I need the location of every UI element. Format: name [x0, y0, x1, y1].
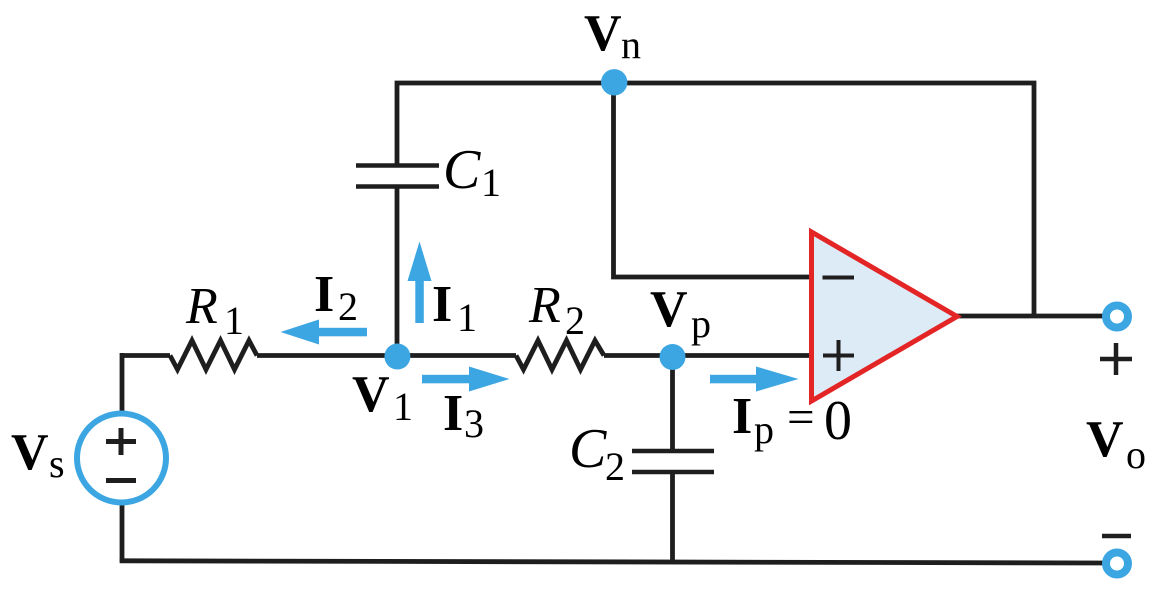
voltage source Vs — [77, 414, 166, 503]
svg-text:I: I — [314, 266, 334, 323]
current arrow I1 — [408, 242, 432, 324]
svg-text:V: V — [352, 366, 390, 423]
svg-text:V: V — [650, 281, 688, 338]
label Vo — [1086, 411, 1146, 477]
op-amp non-inverting input plus sign — [823, 340, 854, 371]
svg-text:C: C — [569, 418, 607, 480]
label I2 — [314, 266, 358, 329]
wire op-amp output to terminal — [956, 314, 1104, 319]
current arrow Ip — [710, 367, 799, 392]
output plus sign — [1100, 343, 1132, 375]
label R2 — [528, 277, 585, 343]
svg-text:2: 2 — [605, 444, 625, 489]
wire C1 bottom lead to node V1 — [395, 188, 400, 356]
label Vp — [650, 281, 711, 346]
svg-text:R: R — [185, 278, 218, 335]
node Vn — [601, 69, 627, 95]
op-amp inverting input minus sign — [823, 276, 855, 280]
svg-text:V: V — [584, 5, 622, 62]
resistor R1 — [170, 341, 257, 370]
capacitor C2 — [632, 451, 714, 472]
capacitor C1 — [356, 166, 439, 187]
label Ip = 0 — [732, 388, 852, 452]
label C1 — [443, 139, 501, 205]
wire left end of main rail to R1 — [122, 353, 170, 358]
svg-text:1: 1 — [457, 295, 477, 340]
svg-text:I: I — [432, 276, 452, 333]
wire C2 bottom lead — [670, 471, 675, 562]
terminal output minus — [1106, 553, 1128, 575]
wire R2 to non-inverting input through node Vp — [604, 353, 813, 358]
wire R1 to R2 through node V1 — [257, 353, 516, 358]
svg-text:V: V — [1086, 411, 1124, 468]
label R1 — [185, 278, 244, 343]
svg-text:3: 3 — [464, 401, 484, 446]
svg-text:V: V — [11, 424, 49, 481]
svg-text:p: p — [754, 407, 774, 452]
label Vs — [11, 424, 65, 486]
op-amp U1 — [812, 232, 958, 401]
svg-text:=: = — [787, 389, 815, 444]
resistor R2 — [516, 341, 604, 370]
svg-text:0: 0 — [824, 390, 852, 452]
wire left vertical below source — [120, 504, 125, 563]
current arrow I2 — [281, 320, 368, 345]
label Vn — [584, 5, 641, 67]
output minus sign — [1102, 534, 1131, 539]
node Vp — [660, 344, 686, 370]
label I1 — [432, 276, 477, 340]
svg-text:p: p — [691, 301, 711, 346]
wire bottom rail — [120, 561, 1104, 563]
svg-text:o: o — [1126, 432, 1146, 477]
svg-text:1: 1 — [224, 298, 244, 343]
label V1 — [352, 366, 413, 429]
current arrow I3 — [422, 367, 510, 392]
label I3 — [443, 385, 484, 446]
svg-text:I: I — [443, 385, 463, 442]
terminal output plus — [1106, 306, 1128, 328]
wire top rail from C1 corner to feedback corner — [397, 83, 1034, 316]
wire node Vn down and right to inverting input — [614, 85, 814, 277]
svg-text:C: C — [443, 139, 481, 201]
wire Vp down to C2 — [670, 354, 675, 452]
svg-text:s: s — [49, 441, 65, 486]
svg-text:1: 1 — [481, 160, 501, 205]
svg-text:I: I — [732, 388, 752, 445]
svg-text:2: 2 — [565, 298, 585, 343]
source plus sign — [106, 428, 136, 455]
svg-text:n: n — [621, 22, 641, 67]
svg-text:2: 2 — [338, 284, 358, 329]
node V1 — [384, 344, 410, 370]
wire left vertical above source — [120, 353, 125, 412]
label C2 — [569, 418, 625, 489]
svg-text:R: R — [528, 277, 561, 334]
source minus sign — [106, 478, 136, 483]
svg-text:1: 1 — [393, 384, 413, 429]
